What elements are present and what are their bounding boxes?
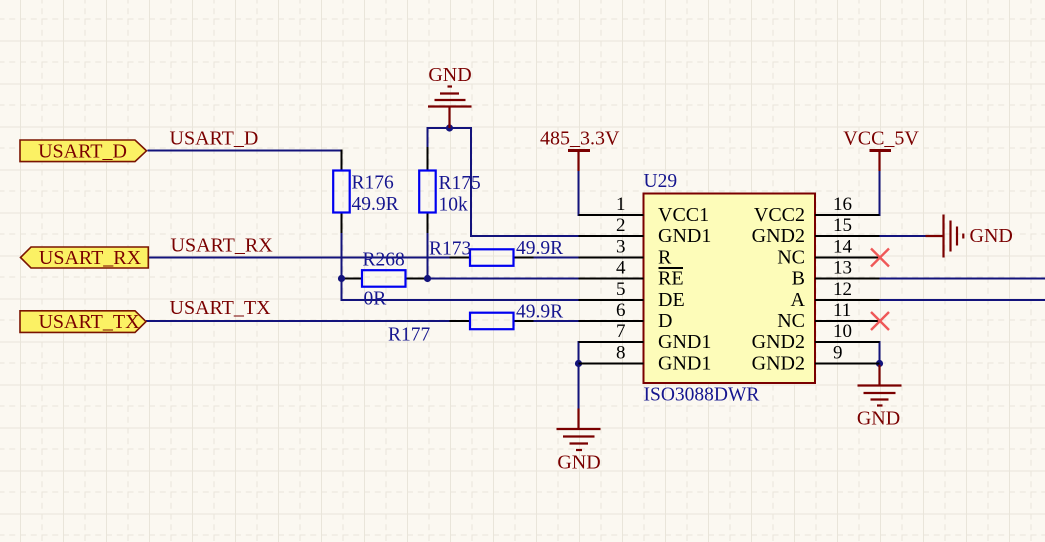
svg-text:49.9R: 49.9R — [516, 238, 563, 259]
wire USART_RX from port to R173 — [148, 257, 450, 259]
pin 1 (VCC1) — [579, 194, 710, 226]
pin 4 RE overline — [659, 267, 684, 269]
svg-text:VCC1: VCC1 — [658, 204, 709, 226]
wire GND1 line to pin 2 — [470, 235, 579, 237]
wire R175 bottom to RE line — [427, 233, 429, 280]
resistor R268 left lead — [343, 278, 362, 280]
resistor R176 bottom lead — [341, 213, 343, 235]
pin 5 (DE) — [579, 279, 685, 311]
svg-text:11: 11 — [833, 300, 851, 321]
resistor R173 right lead — [514, 257, 535, 259]
ground GND (bottom right, pins 9-10) — [858, 365, 902, 406]
svg-text:USART_D: USART_D — [170, 128, 259, 150]
junction GND1 pins 7-8 — [575, 360, 582, 367]
svg-text:R173: R173 — [429, 239, 471, 260]
svg-text:14: 14 — [833, 237, 853, 258]
junction R268 left / DE branch — [338, 275, 345, 282]
svg-text:10: 10 — [833, 321, 852, 342]
wire R177 to pin 6 — [534, 320, 580, 322]
svg-text:R177: R177 — [388, 325, 431, 346]
svg-text:NC: NC — [777, 310, 805, 332]
resistor R177 left lead — [450, 320, 471, 322]
svg-text:9: 9 — [833, 343, 843, 364]
power port 485_3.3V — [540, 128, 620, 172]
wire GND jog above R175 — [427, 127, 473, 129]
resistor R175 bottom lead — [427, 213, 429, 235]
wire pin 15 to GND symbol — [879, 235, 927, 237]
svg-text:49.9R: 49.9R — [516, 302, 563, 323]
resistor R175 10k — [419, 171, 481, 216]
svg-text:1: 1 — [616, 194, 626, 215]
svg-text:7: 7 — [616, 321, 626, 342]
svg-text:USART_RX: USART_RX — [171, 235, 274, 257]
pin 11 (NC) — [777, 300, 879, 332]
port USART_D — [20, 140, 147, 163]
svg-text:3: 3 — [616, 237, 626, 258]
svg-text:A: A — [791, 289, 806, 311]
svg-text:GND2: GND2 — [752, 225, 805, 247]
svg-text:U29: U29 — [644, 171, 678, 192]
wire pin 7 down to junction — [578, 341, 580, 365]
pin 15 (GND2) — [752, 215, 880, 247]
svg-text:GND: GND — [970, 225, 1013, 247]
pin 6 (D) — [579, 300, 673, 332]
svg-text:0R: 0R — [364, 289, 387, 310]
pin 10 (GND2) — [752, 321, 880, 353]
junction GND2 pins 9-10 — [876, 360, 883, 367]
svg-text:49.9R: 49.9R — [352, 194, 399, 215]
pin 13 (B) — [792, 258, 880, 290]
svg-text:ISO3088DWR: ISO3088DWR — [644, 385, 760, 406]
resistor R173 left lead — [450, 257, 471, 259]
pin 12 (A) — [791, 279, 880, 311]
wire R176 bottom to DE line — [341, 233, 343, 301]
svg-text:12: 12 — [833, 279, 852, 300]
port USART_RX — [21, 247, 149, 269]
svg-text:R176: R176 — [352, 173, 395, 194]
pin 7 (GND1) — [579, 321, 712, 353]
svg-text:USART_RX: USART_RX — [39, 247, 142, 269]
no-connect X on pin 14 — [871, 249, 889, 267]
junction R268 right / R175 — [424, 275, 431, 282]
ground GND (top, above R175, inverted earth) — [428, 87, 472, 129]
svg-text:GND2: GND2 — [752, 331, 805, 353]
svg-text:VCC2: VCC2 — [754, 204, 805, 226]
pin 3 (R) — [579, 237, 673, 269]
wire GND junction down to R175 — [427, 127, 429, 148]
wire net A from pin 12 — [879, 299, 1045, 301]
svg-text:15: 15 — [833, 215, 852, 236]
svg-text:GND1: GND1 — [658, 353, 711, 375]
resistor R177 49.9R body — [470, 313, 514, 330]
svg-text:D: D — [658, 310, 672, 332]
resistor R268 0R body — [362, 270, 406, 287]
resistor R268 right lead — [406, 278, 427, 280]
svg-text:8: 8 — [616, 343, 626, 364]
pin 9 (GND2) — [752, 343, 880, 375]
pin 4 (RE) — [579, 258, 684, 290]
svg-text:GND: GND — [557, 452, 600, 474]
wire pin 10 down to junction — [879, 341, 881, 365]
IC U29 ISO3088DWR body — [644, 194, 816, 384]
wire USART_D from port to R176 — [148, 150, 343, 152]
wire VCC_5V down to pin 16 — [879, 170, 881, 216]
svg-text:DE: DE — [658, 289, 685, 311]
svg-text:RE: RE — [658, 268, 684, 290]
resistor R173 49.9R body — [470, 249, 514, 265]
resistor R175 top lead — [427, 147, 429, 171]
svg-text:6: 6 — [616, 300, 626, 321]
svg-text:GND2: GND2 — [752, 353, 805, 375]
svg-text:10k: 10k — [439, 195, 469, 216]
svg-text:R268: R268 — [363, 250, 405, 271]
wire USART_TX from port to R177 — [146, 320, 450, 322]
resistor R176 49.9R — [333, 171, 398, 216]
svg-text:NC: NC — [777, 247, 805, 269]
svg-text:USART_TX: USART_TX — [170, 297, 272, 319]
svg-text:GND: GND — [857, 408, 900, 430]
svg-text:485_3.3V: 485_3.3V — [540, 128, 620, 150]
port USART_TX — [20, 311, 146, 333]
pin 14 (NC) — [777, 237, 879, 269]
svg-text:4: 4 — [616, 258, 626, 279]
junction GND-R175 — [446, 124, 453, 131]
svg-text:16: 16 — [833, 194, 852, 215]
no-connect X on pin 11 — [871, 312, 889, 330]
resistor R177 right lead — [514, 320, 535, 322]
svg-text:13: 13 — [833, 258, 852, 279]
pin 8 (GND1) — [579, 343, 712, 375]
svg-text:USART_TX: USART_TX — [38, 311, 140, 333]
power port VCC_5V — [843, 128, 919, 172]
svg-text:R: R — [658, 247, 672, 269]
wire GND branch down to GND1 line — [470, 127, 472, 237]
pin 2 (GND1) — [579, 215, 712, 247]
wire net B from pin 13 — [879, 278, 1045, 280]
svg-text:VCC_5V: VCC_5V — [843, 128, 919, 150]
resistor R176 top lead — [341, 150, 343, 171]
wire junction down to GND — [578, 364, 580, 410]
svg-text:USART_D: USART_D — [38, 141, 127, 163]
ground GND (right of pin 15, rotated earth) — [926, 215, 964, 258]
wire RE line to pin 4 — [427, 278, 579, 280]
svg-text:GND1: GND1 — [658, 225, 711, 247]
wire 485_3.3V down to pin 1 — [578, 170, 580, 216]
wire DE line to pin 5 — [341, 299, 579, 301]
ground GND (bottom left, pins 7-8) — [557, 409, 601, 451]
svg-text:GND1: GND1 — [658, 331, 711, 353]
svg-text:R175: R175 — [439, 173, 481, 194]
svg-text:B: B — [792, 268, 805, 290]
svg-text:GND: GND — [428, 64, 471, 86]
svg-text:2: 2 — [616, 215, 626, 236]
pin 16 (VCC2) — [754, 194, 880, 226]
svg-text:5: 5 — [616, 279, 626, 300]
wire R173 to pin 3 — [534, 257, 580, 259]
